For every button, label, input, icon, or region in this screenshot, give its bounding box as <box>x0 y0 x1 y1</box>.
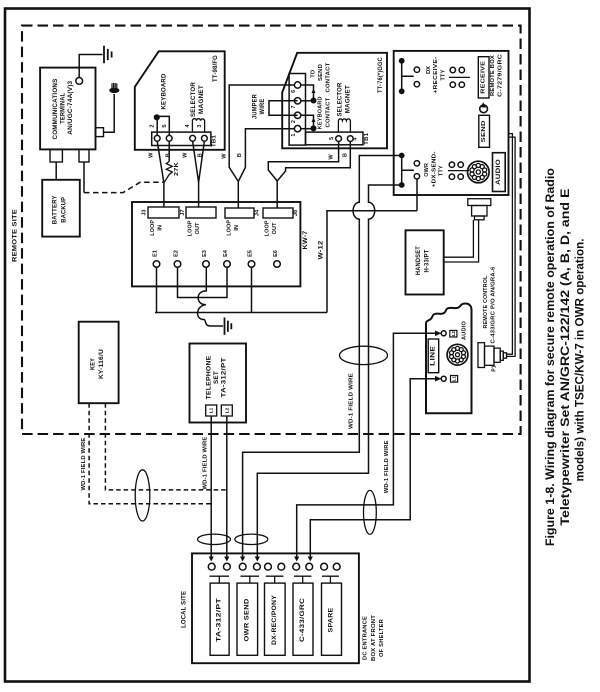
key KY-116/U box <box>79 322 119 404</box>
svg-text:TB1: TB1 <box>212 135 218 147</box>
svg-text:DC ENTRANCE: DC ENTRANCE <box>363 616 369 660</box>
wire TT-76 terminal 6 white to loop in J4 <box>229 85 294 182</box>
svg-text:5: 5 <box>329 137 335 140</box>
svg-text:KEY: KEY <box>90 357 97 370</box>
svg-text:WD-1 FIELD WIRE: WD-1 FIELD WIRE <box>202 437 208 490</box>
terminal strip TB1 of TT-98 <box>152 132 211 145</box>
jumper wire U between terminals 7 and 2 <box>269 101 298 116</box>
terminal E6 <box>274 261 281 268</box>
local site block OWR SEND <box>237 583 258 655</box>
svg-text:L2: L2 <box>224 407 229 413</box>
svg-text:JUMPER: JUMPER <box>253 94 259 119</box>
svg-text:TA-312/PT: TA-312/PT <box>217 598 223 642</box>
svg-text:BACKUP: BACKUP <box>61 197 68 223</box>
terminal tee bars and stems <box>210 576 230 583</box>
terminal E2 <box>174 261 181 268</box>
svg-text:KW-7: KW-7 <box>302 230 309 249</box>
svg-text:BOX AT FRONT: BOX AT FRONT <box>371 615 377 661</box>
terminal foot left <box>50 149 62 162</box>
unused owr terminals <box>449 162 454 167</box>
wire junction to J4 <box>237 182 239 209</box>
svg-text:IN: IN <box>158 225 164 231</box>
local site block DX-REC/PONY <box>265 583 286 655</box>
svg-text:L1: L1 <box>452 376 457 382</box>
svg-text:B: B <box>343 153 349 157</box>
terminal foot right <box>79 149 89 162</box>
svg-text:OUT: OUT <box>195 222 201 234</box>
svg-text:SPARE: SPARE <box>329 608 335 633</box>
svg-text:AUDIO: AUDIO <box>496 159 502 185</box>
wire foot to battery <box>55 162 57 180</box>
loop in jack J3 box <box>148 207 179 218</box>
local site terminal circles <box>208 563 215 570</box>
audio connector of remote control <box>447 344 468 365</box>
send button <box>479 115 490 147</box>
svg-text:27K: 27K <box>174 161 180 176</box>
terminal 6 circle <box>294 82 300 88</box>
svg-text:TTY: TTY <box>439 165 445 176</box>
local site block SPARE <box>322 583 342 655</box>
svg-text:P1: P1 <box>492 365 498 371</box>
wire terminal 3 to J7 junction <box>199 141 205 182</box>
svg-text:SEND: SEND <box>318 64 324 81</box>
wire E1 down to bus <box>156 267 158 312</box>
svg-text:SEND: SEND <box>481 120 487 142</box>
svg-text:LOOP: LOOP <box>188 220 194 236</box>
svg-text:TERMINAL: TERMINAL <box>60 93 67 124</box>
svg-text:CONTACT: CONTACT <box>326 97 332 127</box>
wire stub to cable end <box>104 94 115 132</box>
svg-text:DX-REC/PONY: DX-REC/PONY <box>272 595 278 645</box>
svg-text:B: B <box>165 153 171 157</box>
svg-text:C-433/GRC P/O AN/GRA-6: C-433/GRC P/O AN/GRA-6 <box>490 266 496 343</box>
svg-text:TO: TO <box>311 69 317 77</box>
svg-text:WD-1 FIELD WIRE: WD-1 FIELD WIRE <box>81 438 87 491</box>
terminal 1 circle <box>294 126 300 132</box>
line plate <box>428 339 439 373</box>
svg-text:WIRE: WIRE <box>260 99 266 115</box>
svg-text:W-12: W-12 <box>317 240 324 259</box>
owr line terminal dots and tee <box>399 153 405 159</box>
communications terminal AN/UGC-74A(V)3 box <box>40 68 95 150</box>
crypto unit KW-7 box <box>132 202 300 286</box>
svg-text:J8: J8 <box>293 210 299 216</box>
keyboard contact dot on terminal 1 line <box>301 128 314 130</box>
send push symbol <box>480 105 488 113</box>
wire terminal 5 through resistor <box>168 141 170 161</box>
svg-text:Figure 1-8. Wiring diagram fo: Figure 1-8. Wiring diagram for secure re… <box>544 168 557 546</box>
svg-text:B: B <box>237 153 243 157</box>
cable marker ellipse on owr pair <box>340 346 388 364</box>
svg-text:RECEIVE: RECEIVE <box>481 61 487 94</box>
terminal L2 of telephone <box>221 405 232 416</box>
ground (chassis) top <box>104 46 112 63</box>
wire junction to loop out J7 <box>198 182 200 207</box>
terminal 2 circle <box>154 135 160 141</box>
send contact dot on terminal 7 line <box>301 100 314 102</box>
wire E5 down to bus <box>251 267 253 312</box>
svg-text:LOCAL SITE: LOCAL SITE <box>180 590 187 627</box>
receive tty terminal circles <box>414 67 419 72</box>
jumper terminal 6 to send contact dot <box>301 85 314 98</box>
wire foot right down <box>83 162 85 193</box>
svg-text:MAGNET: MAGNET <box>198 85 205 114</box>
svg-text:WD-1 FIELD WIRE: WD-1 FIELD WIRE <box>384 440 390 493</box>
cable end plug symbol <box>109 88 119 94</box>
svg-text:SELECTOR: SELECTOR <box>337 82 343 116</box>
wire keyboard contact to terminal 5 <box>157 116 169 135</box>
svg-text:SELECTOR: SELECTOR <box>190 82 197 117</box>
svg-text:KY-116/U: KY-116/U <box>98 349 105 379</box>
svg-text:CONTACT: CONTACT <box>326 62 332 92</box>
svg-text:IN: IN <box>234 225 240 231</box>
svg-text:J3: J3 <box>142 209 148 215</box>
svg-text:4: 4 <box>353 138 359 141</box>
svg-text:KEYBOARD: KEYBOARD <box>161 73 168 109</box>
svg-text:+RECEIVE-: +RECEIVE- <box>433 57 439 94</box>
terminal 4 circle <box>347 136 353 142</box>
audio connector of remote box <box>468 161 490 183</box>
svg-text:J4: J4 <box>255 209 261 216</box>
cable remote box to plug P1 double line <box>507 134 516 357</box>
svg-text:models) with TSEC/KW-7 in OWR: models) with TSEC/KW-7 in OWR operation. <box>574 239 587 482</box>
svg-text:SET: SET <box>213 371 220 384</box>
svg-text:KEYBOARD: KEYBOARD <box>318 96 324 129</box>
terminal E3 <box>203 261 210 268</box>
svg-text:E3: E3 <box>202 250 208 257</box>
svg-text:+DX-SEND-: +DX-SEND- <box>432 151 438 187</box>
teletypewriter TT-76(*)GGC unit outline <box>282 53 387 149</box>
svg-text:AUDIO: AUDIO <box>462 321 468 340</box>
wire W-12 riser and horizontal to audio <box>327 211 417 313</box>
dashed wire key to telephone L2 line <box>105 403 225 490</box>
svg-text:TT-76(*)GGC: TT-76(*)GGC <box>378 57 384 93</box>
svg-text:HANDSET: HANDSET <box>415 246 422 275</box>
local site entrance box <box>192 553 359 663</box>
svg-text:1: 1 <box>291 134 297 137</box>
svg-text:2: 2 <box>291 120 297 123</box>
wire telephone L1 to local site terminal 1 <box>210 416 212 558</box>
svg-text:E6: E6 <box>273 250 279 257</box>
terminal L1 of telephone <box>206 405 217 416</box>
wire owr dx-send lower to local site terminal 4 <box>257 185 401 558</box>
cable marker ellipse on key pair <box>135 470 150 521</box>
audio plug body <box>468 199 491 206</box>
terminal 5 circle <box>336 136 342 142</box>
svg-text:E1: E1 <box>153 250 159 257</box>
audio label plate <box>493 153 506 192</box>
svg-text:OWR SEND: OWR SEND <box>244 598 250 642</box>
wire TT-76 terminal 4 black to loop out J8 <box>277 142 350 182</box>
wire owr dx-send upper to local site terminal 3 <box>243 156 402 558</box>
wire telephone L2 to local site terminal 2 <box>226 416 228 558</box>
svg-text:TELEPHONE: TELEPHONE <box>206 356 213 400</box>
terminal 7 circle <box>294 98 300 104</box>
svg-text:COMMUNICATIONS: COMMUNICATIONS <box>52 79 59 140</box>
wire bus E1-E5 to W-12 riser <box>155 312 327 314</box>
svg-text:W: W <box>328 154 334 160</box>
terminal 2 circle <box>294 112 300 118</box>
handset cord to audio plug <box>444 220 479 262</box>
jumper terminal 2 to keyboard contact dot <box>301 115 314 126</box>
terminal strip TB1 horizontal of TT-76 <box>306 132 364 145</box>
svg-text:REMOTE SITE: REMOTE SITE <box>12 209 19 262</box>
cable marker ellipses at local site entry <box>198 534 231 544</box>
svg-text:TA-312/PT: TA-312/PT <box>221 357 228 397</box>
svg-text:TB1: TB1 <box>364 133 370 145</box>
svg-text:L1: L1 <box>209 407 214 413</box>
svg-text:LINE: LINE <box>430 346 436 366</box>
resistor 27K <box>164 162 172 183</box>
svg-text:DX: DX <box>426 66 432 74</box>
svg-text:W: W <box>183 152 189 158</box>
unused receive terminals <box>450 67 455 72</box>
keyboard contact dot <box>154 114 160 120</box>
svg-text:LOOP: LOOP <box>265 220 271 236</box>
svg-text:LOOP: LOOP <box>150 220 156 236</box>
wire junction to loop in J3 <box>163 182 165 207</box>
teletypewriter TT-98/FG unit outline <box>135 51 225 150</box>
svg-text:C-7279/GRC: C-7279/GRC <box>498 53 504 97</box>
svg-text:OWR: OWR <box>424 163 430 177</box>
terminal E5 <box>248 261 255 268</box>
wire L1 to local site terminal 8 <box>310 379 438 558</box>
remote control C-433/GRC partial box with torn edge <box>426 304 472 414</box>
wire audio circle down to W-12 <box>416 179 418 211</box>
selector magnet coil TT-76 <box>338 119 350 132</box>
dashed wire comm terminal to keyboard loop junction <box>84 182 164 192</box>
terminal L1 of remote control <box>441 376 446 381</box>
svg-text:WD-1 FIELD WIRE: WD-1 FIELD WIRE <box>349 373 355 429</box>
svg-text:3: 3 <box>197 124 203 127</box>
svg-text:E4: E4 <box>223 249 229 257</box>
svg-text:TTY: TTY <box>441 69 447 80</box>
svg-text:AN/UGC-74A(V)3: AN/UGC-74A(V)3 <box>67 80 74 134</box>
loop out jack J8 box <box>263 208 293 218</box>
wire E3 loop-hops to ground <box>198 267 223 326</box>
connector circle on terminal <box>76 78 83 85</box>
telephone set TA-312/PT box <box>190 344 247 423</box>
terminal 3 circle <box>202 135 208 141</box>
selector magnet coil TT-98 <box>192 119 204 132</box>
loop in jack J4 box <box>225 208 254 218</box>
local site block C-433/GRC <box>293 583 313 655</box>
svg-text:C-433/GRC: C-433/GRC <box>300 597 306 642</box>
plug P1 body <box>478 343 485 368</box>
owr tty terminal circles <box>414 161 419 166</box>
ground at E3 <box>225 318 232 335</box>
terminal E1 <box>153 261 160 268</box>
receive button <box>478 57 489 98</box>
svg-text:6: 6 <box>291 90 297 93</box>
svg-text:BATTERY: BATTERY <box>51 195 58 225</box>
svg-text:L2: L2 <box>451 331 456 337</box>
svg-text:OUT: OUT <box>272 222 278 234</box>
svg-text:TT-98/FG: TT-98/FG <box>213 55 219 82</box>
remote box C-7279/GRC outline <box>394 51 509 195</box>
svg-text:MAGNET: MAGNET <box>346 85 352 113</box>
terminal 5 circle <box>166 135 172 141</box>
svg-text:REMOTE BOX: REMOTE BOX <box>490 55 496 96</box>
svg-text:Teletypewriter Set AN/GRC-122/: Teletypewriter Set AN/GRC-122/142 (A, B,… <box>559 188 572 525</box>
dashed wire key to telephone L1 line <box>89 403 210 504</box>
wire terminal connector to ground <box>79 55 102 78</box>
terminal L2 of remote control <box>441 331 446 336</box>
svg-text:J7: J7 <box>180 209 186 215</box>
svg-text:7: 7 <box>291 106 297 109</box>
loop out jack J7 box <box>186 207 216 218</box>
svg-text:E2: E2 <box>174 250 180 257</box>
wire TT-76 terminal 5 white to loop out J8 <box>268 142 338 182</box>
terminal 4 circle <box>190 135 196 141</box>
svg-text:2: 2 <box>150 124 156 127</box>
keyboard contact arrowhead <box>312 118 316 123</box>
handset H-33/PT box <box>406 230 444 294</box>
battery backup box <box>42 180 80 237</box>
wire terminal 2 to J3 junction <box>157 141 164 182</box>
svg-text:H-33/PT: H-33/PT <box>424 249 431 272</box>
local site block TA-312/PT <box>210 583 229 655</box>
cable marker ellipse on L1 L2 pair <box>364 490 377 534</box>
svg-text:5: 5 <box>162 124 168 127</box>
dashed REMOTE SITE boundary box <box>22 26 521 434</box>
wire TT-76 terminal 1 black to loop in J4 <box>238 129 294 182</box>
wire junction to J8 <box>276 181 278 208</box>
terminal E4 <box>224 261 231 268</box>
wire terminal 4 to J7 junction <box>193 141 199 182</box>
connector stub on terminal right edge <box>96 128 104 137</box>
svg-text:W: W <box>149 152 155 158</box>
svg-text:LOOP: LOOP <box>227 220 233 236</box>
svg-text:REMOTE CONTROL: REMOTE CONTROL <box>483 275 489 328</box>
svg-text:W: W <box>222 153 228 159</box>
svg-text:OF SHELTER: OF SHELTER <box>379 618 385 657</box>
svg-text:E5: E5 <box>248 250 254 257</box>
wire L2 to local site terminal 7 <box>297 333 439 557</box>
receive line terminal dots and tee <box>399 58 405 64</box>
wire E2 to E4 with hop over E3 <box>178 267 228 297</box>
terminal strip TB1 vertical of TT-76 <box>289 74 305 146</box>
send contact arrowhead <box>312 89 316 94</box>
